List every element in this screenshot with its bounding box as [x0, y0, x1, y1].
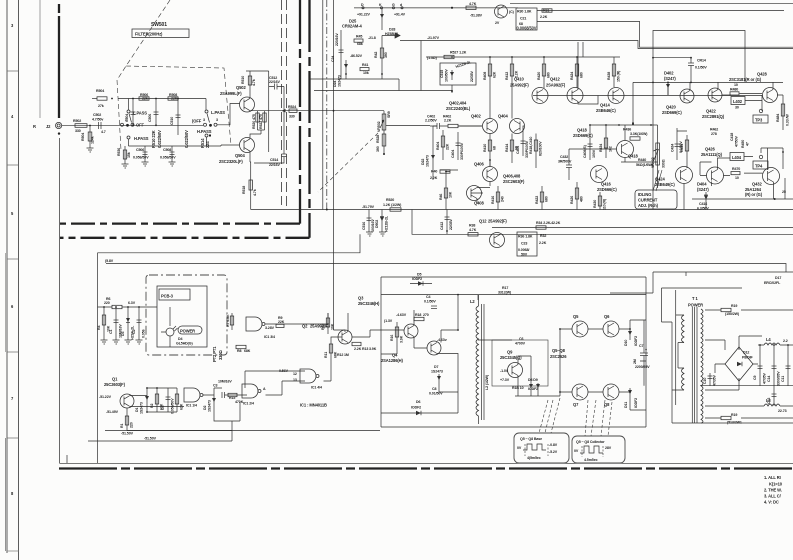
svg-text:27k: 27k [98, 104, 104, 108]
svg-text:IC1 1/4: IC1 1/4 [186, 404, 197, 408]
wire logic interconnect [127, 362, 331, 441]
svg-text:R536: R536 [117, 148, 121, 156]
wire: thin vertical at x=40 top [39, 0, 41, 118]
svg-text:R502: R502 [73, 119, 81, 123]
resistor R504 124k vertical [81, 125, 95, 148]
svg-text:R1: R1 [120, 424, 124, 428]
switch contact L.PASS [205, 110, 225, 123]
svg-text:330Ω: 330Ω [662, 159, 666, 168]
svg-text:R520 475: R520 475 [252, 114, 256, 129]
inductor L2 large vertical winding [470, 295, 489, 424]
transistor Q504 25C2320LIF [219, 138, 255, 165]
resistor R12 / R13 labels [337, 342, 377, 357]
svg-text:R510 22K: R510 22K [151, 130, 156, 148]
transistor Q3 25C3246(H) [358, 296, 418, 339]
svg-text:-5.2V: -5.2V [549, 450, 558, 454]
svg-text:D502: D502 [375, 220, 379, 228]
resistor R438 150 vertical [607, 57, 621, 87]
svg-text:VR402: VR402 [651, 157, 655, 168]
wire top rail y=3.7 [510, 3, 793, 5]
switch contact H.PASS [197, 129, 212, 137]
resistor R444 220 vertical [680, 128, 750, 169]
svg-text:R434: R434 [599, 144, 603, 152]
svg-text:R450: R450 [741, 140, 745, 148]
svg-text:H.PASS: H.PASS [197, 129, 212, 134]
svg-text:R8: R8 [237, 349, 241, 353]
svg-text:FILTER(200Hz): FILTER(200Hz) [135, 32, 163, 37]
resistor R422 680 vertical [535, 186, 549, 210]
svg-text:J2: J2 [46, 124, 51, 129]
svg-text:R420: R420 [537, 72, 541, 80]
wire: filter input row y=125.3 [110, 124, 203, 126]
wires driver row [690, 82, 783, 111]
svg-text:R528: R528 [376, 135, 380, 143]
svg-text:CR14: CR14 [697, 59, 706, 63]
test point TP4 [753, 155, 768, 169]
wire: filter upper row y=98.5 [118, 99, 206, 111]
diode D6 IODF2 [405, 400, 432, 415]
capacitor C412 22/35v near bus [440, 210, 453, 235]
resistor R34 2.2K [536, 221, 551, 229]
svg-text:4.7k: 4.7k [253, 189, 257, 196]
svg-text:R34 2.2K: R34 2.2K [536, 221, 551, 225]
transformer primary winding [682, 315, 685, 343]
svg-text:R524: R524 [288, 105, 296, 109]
svg-text:C506: C506 [148, 114, 152, 122]
svg-text:D1: D1 [135, 408, 139, 412]
svg-text:R46: R46 [439, 194, 443, 200]
svg-text:R16: R16 [390, 335, 394, 341]
svg-text:R10: R10 [321, 324, 325, 330]
svg-text:2.2K: 2.2K [430, 176, 438, 180]
photo-transistor PT2 PT1 330 labels [212, 346, 223, 362]
resistor R418/R416 vertical pair [529, 134, 543, 169]
svg-text:12: 12 [293, 372, 297, 376]
svg-text:R436: R436 [623, 128, 631, 132]
transistor Q432 25A1264 [745, 168, 780, 198]
svg-text:R2: R2 [150, 404, 154, 408]
bus: rail y=227.6 right [492, 227, 793, 229]
svg-text:D11: D11 [624, 402, 628, 408]
svg-text:R518: R518 [242, 186, 246, 194]
inductor L4 [758, 337, 793, 345]
svg-text:10: 10 [735, 176, 739, 180]
svg-text:C4: C4 [426, 295, 430, 299]
svg-text:Q408: Q408 [474, 201, 484, 206]
svg-text:R36 1.8K: R36 1.8K [518, 235, 533, 239]
variable resistor VR502 [376, 111, 430, 155]
svg-text:100V: 100V [592, 149, 596, 158]
svg-text:2SC2320L(F): 2SC2320L(F) [219, 159, 243, 164]
transistor Q1 25C2603(F) [104, 377, 134, 409]
resistor R1 220 vertical below Q1 [120, 408, 134, 431]
svg-text:+7.3V: +7.3V [500, 378, 510, 382]
inductor L402 boxed [731, 97, 745, 110]
svg-text:330P/100V: 330P/100V [460, 142, 464, 160]
svg-text:2.2: 2.2 [783, 339, 788, 343]
gate IC1 1/4 [184, 388, 203, 408]
diode D402 (S247) [664, 71, 676, 96]
label Q5~Q8 2SC2626 [550, 348, 567, 359]
svg-text:3.9K: 3.9K [400, 335, 404, 343]
svg-text:2SB646(C): 2SB646(C) [596, 108, 616, 113]
resistor R414b vertical [599, 133, 613, 158]
svg-text:22/16V: 22/16V [269, 80, 280, 84]
svg-text:22K: 22K [278, 320, 285, 324]
svg-text:Q5: Q5 [573, 314, 579, 319]
svg-text:2SB649(C): 2SB649(C) [655, 182, 675, 187]
svg-text:-51.22V: -51.22V [99, 395, 112, 399]
capacitor C402 2.2/50V [425, 115, 448, 130]
inductor L404 boxed [730, 153, 744, 161]
svg-text:3.9K: 3.9K [369, 347, 377, 351]
wire Q2 collector to Q3 [266, 313, 401, 340]
svg-text:Q7: Q7 [573, 402, 579, 407]
svg-text:IODF2: IODF2 [634, 336, 638, 346]
svg-text:C408(S): C408(S) [583, 144, 587, 158]
svg-text:15k: 15k [127, 152, 131, 158]
svg-text:1.2K (1/2W): 1.2K (1/2W) [383, 203, 402, 207]
wires diff amp internal [433, 100, 524, 203]
wire jack to filter [62, 124, 110, 126]
diode D11 IODF2 vertical [624, 388, 638, 408]
svg-text:2.2K: 2.2K [540, 15, 548, 19]
capacitor C10 47/35v vertical [703, 373, 717, 386]
svg-text:C14: C14 [767, 376, 771, 382]
label R19 150(1/2W) top [705, 304, 793, 316]
resistor R410 68 vertical [483, 134, 497, 167]
resistor R11 68k vertical [324, 340, 338, 362]
resistor R7 6.8k vertical [226, 313, 234, 330]
shield bottom heavy dash-dot bus y=470 [59, 467, 793, 469]
svg-text:L2 (1/2W): L2 (1/2W) [485, 374, 489, 390]
svg-text:2SA992(F): 2SA992(F) [546, 83, 566, 88]
gate IC1 4/4 [293, 369, 322, 390]
svg-text:IODF2: IODF2 [528, 387, 538, 391]
label D17 ERC/02FL [764, 276, 781, 285]
wire Q412-Q414 jog [578, 42, 598, 104]
capacitor C416 6.3/50V [697, 202, 709, 211]
resistor R416 240 vertical [491, 186, 505, 210]
svg-text:(S247): (S247) [697, 187, 709, 192]
bus: bottom thin rail y=463.3 [67, 455, 793, 463]
svg-text:-42.2K: -42.2K [550, 221, 561, 225]
dashed link to VR502 [318, 133, 378, 192]
svg-text:68k: 68k [357, 42, 363, 46]
svg-text:IC1 3/4: IC1 3/4 [264, 335, 275, 339]
svg-text:270: 270 [423, 313, 429, 317]
shield dashed verticals x=281.5,286.5 [281, 0, 283, 205]
svg-text:0.056/50V: 0.056/50V [133, 156, 149, 160]
capacitor C4 0.1/50v [424, 295, 437, 309]
capacitor C514 22/16v vertical [254, 87, 287, 168]
POWER oval label with LED D4 [166, 326, 202, 346]
svg-text:22K: 22K [446, 143, 450, 150]
wire H.PASS contact down to Q504 base [207, 137, 240, 146]
svg-text:(513/2W1: (513/2W1 [727, 421, 742, 425]
shield thin vertical x=59.5 below jack to bottom [60, 138, 68, 463]
shield heavy vertical x=59 above jack [58, 4, 60, 118]
svg-text:R30 1.8K: R30 1.8K [517, 10, 532, 14]
svg-text:3: 3 [11, 23, 14, 28]
svg-text:C504: C504 [125, 114, 129, 122]
svg-text:(1.3Ω): (1.3Ω) [427, 56, 438, 60]
svg-text:HZ12B-2L: HZ12B-2L [455, 60, 472, 69]
svg-text:R40: R40 [431, 170, 437, 174]
svg-text:10K: 10K [449, 191, 453, 198]
svg-text:2.2K: 2.2K [539, 241, 547, 245]
svg-text:7: 7 [11, 396, 14, 401]
svg-text:A: A [263, 387, 266, 391]
svg-text:-21.97V: -21.97V [427, 36, 440, 40]
svg-text:R18: R18 [415, 313, 421, 317]
label Q406,408 2SC2603(F) [503, 174, 525, 185]
svg-text:0.056/50V: 0.056/50V [160, 156, 176, 160]
wire wiper to Q502 base [217, 104, 240, 125]
svg-text:D: D [361, 3, 364, 7]
resistor R520 475 vertical [252, 111, 259, 130]
svg-text:50V: 50V [521, 253, 528, 257]
transistor Q402 [471, 114, 498, 134]
svg-text:(C): (C) [509, 10, 515, 14]
gate IC1 2/4 [242, 384, 266, 406]
gate IC1 3/4 [246, 316, 285, 339]
svg-text:10K: 10K [331, 323, 335, 330]
capacitor C508 0.056/50v label [133, 146, 149, 162]
svg-text:4: 4 [11, 114, 14, 119]
svg-text:+91.4V: +91.4V [394, 13, 406, 17]
svg-text:Q3: Q3 [358, 296, 364, 301]
svg-text:Q404: Q404 [498, 114, 508, 119]
svg-text:4. V: DC: 4. V: DC [764, 500, 779, 505]
svg-text:124k: 124k [91, 136, 95, 144]
resistor R420 680 vertical [537, 56, 551, 88]
svg-text:C21: C21 [520, 17, 526, 21]
transistor Q414 2SB646(C) [596, 88, 624, 114]
capacitor C14 3300/35v vertical [767, 344, 781, 386]
resistor R502 330 [73, 119, 87, 133]
svg-text:1S2473: 1S2473 [208, 400, 212, 412]
transistor Q406 [483, 167, 498, 182]
wire Q502 collector rail y=71 / R510 4.7k [241, 71, 269, 98]
svg-text:R412: R412 [505, 72, 509, 80]
label FILTER(200Hz) boxed [132, 29, 189, 38]
label R19 (513/2W) bottom [705, 413, 793, 425]
rail y=199 right [692, 198, 793, 200]
svg-text:330: 330 [75, 129, 81, 133]
svg-text:PCB-3: PCB-3 [161, 294, 174, 299]
svg-text:C23: C23 [521, 242, 527, 246]
svg-text:2SD666(C): 2SD666(C) [597, 187, 617, 192]
box around Q9 bias [492, 340, 548, 386]
svg-text:C432: C432 [560, 155, 568, 159]
thin dash-dot vertical x=326.8 [326, 0, 328, 210]
svg-text:Q426: Q426 [705, 147, 715, 152]
svg-text:D24: D24 [333, 81, 337, 87]
svg-text:68K: 68K [244, 349, 251, 353]
svg-text:22/35V: 22/35V [449, 219, 453, 230]
resistor R408 62K vertical [483, 56, 497, 103]
switch left pole H.PASS contact [127, 136, 149, 146]
svg-text:D402: D402 [664, 71, 674, 76]
capacitor C510 vertical to upper row [170, 99, 181, 136]
svg-text:R7 6.8K: R7 6.8K [226, 314, 230, 327]
shield dash-dot horizontal pair [60, 222, 300, 224]
svg-text:C2: C2 [132, 330, 136, 334]
svg-text:Q422: Q422 [706, 109, 716, 114]
svg-text:2SC2240(BL): 2SC2240(BL) [446, 106, 471, 111]
wires bridge [705, 336, 762, 390]
svg-text:Q406,408: Q406,408 [503, 174, 521, 179]
svg-text:2SC2626: 2SC2626 [550, 354, 567, 359]
resistor R41 10k [360, 63, 369, 75]
svg-text:C1: C1 [109, 330, 113, 334]
wire bracket to Q428 collector [653, 31, 745, 210]
svg-text:C508: C508 [163, 148, 171, 152]
wire protection bottom rail y=74 [310, 41, 452, 91]
svg-text:R19: R19 [731, 413, 737, 417]
svg-text:C506: C506 [136, 148, 144, 152]
resistor R534 27k [92, 89, 113, 108]
transistor Q12 25A992(F) [479, 219, 507, 248]
svg-text:+: + [645, 348, 647, 352]
svg-text:PT2 PT1: PT2 PT1 [212, 346, 217, 362]
svg-text:C514: C514 [270, 158, 278, 162]
svg-text:-21.8: -21.8 [368, 36, 376, 40]
svg-text:D404: D404 [697, 182, 707, 187]
svg-text:30: 30 [735, 106, 739, 110]
svg-text:D4: D4 [178, 337, 182, 341]
svg-text:(1.3V: (1.3V [384, 319, 393, 323]
svg-text:CR02AM-4: CR02AM-4 [342, 24, 362, 29]
variable resistor VR402 330 [651, 138, 666, 180]
svg-text:R45: R45 [356, 35, 362, 39]
PCB-3 inner solid box [157, 286, 207, 347]
diode D24 1S2473 vertical [333, 60, 348, 87]
svg-text:C515: C515 [440, 70, 444, 78]
svg-text:L404: L404 [732, 155, 742, 160]
svg-text:110 (R): 110 (R) [603, 198, 607, 210]
svg-text:0.056: 0.056 [142, 329, 146, 338]
svg-text:R438: R438 [607, 72, 611, 80]
svg-text:K(1=10: K(1=10 [769, 482, 783, 487]
resistor R40 2.2K [430, 170, 450, 181]
svg-text:1M: 1M [344, 353, 349, 357]
svg-text:3. ALL C/: 3. ALL C/ [764, 494, 782, 499]
svg-text:D10: D10 [624, 340, 628, 346]
svg-text:-86.52V: -86.52V [350, 54, 363, 58]
svg-text:IC1 4/4: IC1 4/4 [311, 386, 322, 390]
svg-text:Q432: Q432 [752, 182, 762, 187]
svg-text:TP3: TP3 [755, 118, 763, 123]
resistor R522 470 vertical [250, 111, 266, 139]
diode D404 (S247) [697, 182, 709, 204]
capacitor C1 vertical [109, 307, 123, 340]
svg-text:R11: R11 [324, 352, 328, 358]
capacitor C2 vertical [132, 307, 146, 340]
svg-text:0.1/50V: 0.1/50V [424, 300, 436, 304]
svg-text:SW501: SW501 [151, 22, 167, 28]
transistor Q412 25A992(F) [546, 77, 583, 104]
PCB-3 dash-dot outer box [146, 275, 227, 355]
svg-text:C412: C412 [440, 222, 444, 230]
wire rail y=10.5 [537, 10, 784, 12]
resistor R38 4.7K [468, 224, 478, 237]
svg-text:L2: L2 [470, 299, 475, 304]
svg-text:L402: L402 [733, 99, 743, 104]
svg-text:2V: 2V [495, 21, 500, 25]
diode D1 1S2473 vertical [135, 388, 149, 414]
svg-text:C516: C516 [362, 222, 366, 230]
svg-text:1S2473: 1S2473 [140, 402, 144, 414]
svg-text:25C3246(H): 25C3246(H) [358, 301, 380, 306]
svg-text:C8: C8 [432, 387, 436, 391]
svg-text:Q9: Q9 [507, 350, 513, 355]
svg-text:3300/35V: 3300/35V [777, 371, 781, 386]
resistor R412 2.2K vertical [505, 56, 519, 100]
resistor R2 62k vertical [150, 388, 164, 412]
capacitor CR14 0.1/50V [688, 57, 707, 72]
svg-text:GL5HD(G): GL5HD(G) [176, 342, 193, 346]
wire PCB-3 internals [161, 307, 170, 347]
wire Q504 collector down + R518 [242, 151, 257, 209]
svg-text:10: 10 [734, 83, 738, 87]
svg-text:CURRENT: CURRENT [638, 198, 658, 203]
C515/D503 network box [440, 56, 476, 93]
thin vertical x=333.5 down to logic mute wire [334, 0, 346, 332]
wire: filter mid row y=135 [129, 145, 207, 147]
svg-text:4.7K: 4.7K [469, 228, 477, 232]
waveform box Q5~Q8 Collector [572, 436, 625, 463]
svg-text:POWER: POWER [180, 329, 195, 334]
transistor Q410 25A992(F) [510, 77, 548, 104]
waveform box Q5~Q8 Base [514, 433, 569, 463]
svg-text:680: 680 [580, 72, 584, 78]
svg-text:Q418: Q418 [628, 154, 638, 159]
svg-text:C3: C3 [213, 384, 217, 388]
svg-text:3R/500V: 3R/500V [558, 160, 572, 164]
svg-text:-1.0V: -1.0V [500, 369, 509, 373]
svg-text:H.PASS: H.PASS [134, 136, 149, 141]
capacitor C432 label [558, 155, 572, 180]
svg-text:2.2/50V: 2.2/50V [425, 119, 437, 123]
svg-text:TP4: TP4 [755, 164, 763, 169]
svg-text:-0.8V: -0.8V [549, 443, 558, 447]
svg-text:C502: C502 [93, 113, 101, 117]
resistor R16 3.9K vertical [390, 322, 404, 345]
transistor Q408 [467, 186, 485, 206]
svg-text:R504: R504 [96, 89, 104, 93]
svg-text:0V: 0V [517, 446, 522, 450]
svg-text:0.0068/: 0.0068/ [518, 248, 529, 252]
svg-text:POWER: POWER [688, 303, 703, 308]
capacitor C9 47/35v vertical [753, 344, 767, 386]
svg-text:R440: R440 [638, 158, 646, 162]
resistor R414 68 vertical [505, 134, 519, 164]
zener D2,D3 HZ9A-2L vertical [121, 307, 135, 340]
svg-text:R426: R426 [570, 196, 574, 204]
svg-text:R418,C410: R418,C410 [529, 137, 533, 154]
label T1 POWER [688, 296, 703, 308]
svg-text:(S247): (S247) [664, 76, 676, 81]
svg-text:22.73: 22.73 [778, 409, 787, 413]
svg-text:R422: R422 [535, 196, 539, 204]
transistor Q418 2SD669(C) [573, 128, 654, 168]
resistor R508 22k [168, 93, 178, 101]
svg-text:47/50V: 47/50V [735, 136, 739, 147]
diodes D8 D9 IODF2 [528, 378, 540, 392]
wire vertical x=322.8 to bus corner [322, 0, 324, 210]
